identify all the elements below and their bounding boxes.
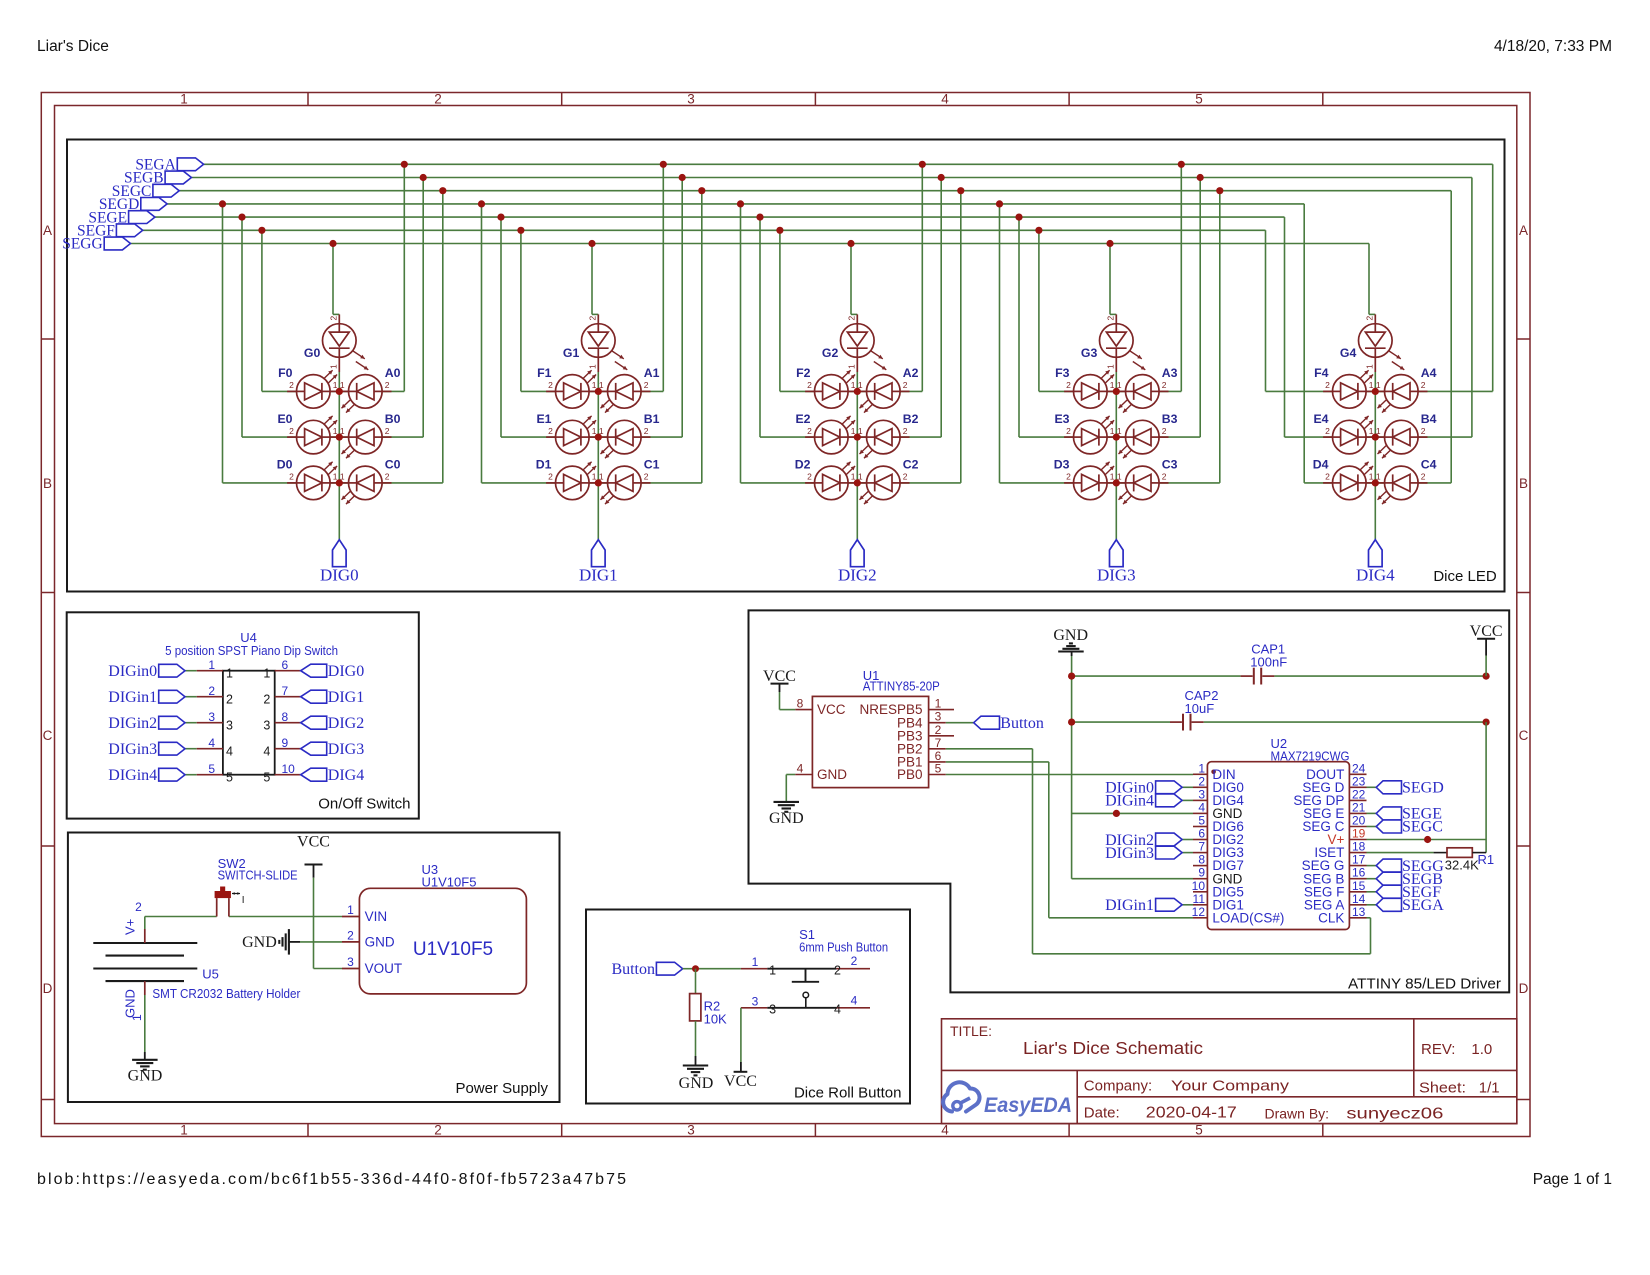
svg-text:1: 1 — [1110, 472, 1115, 482]
svg-text:1: 1 — [1369, 380, 1374, 390]
svg-text:5: 5 — [208, 762, 215, 776]
svg-text:2: 2 — [226, 693, 233, 707]
svg-text:1: 1 — [1117, 472, 1122, 482]
svg-text:GND: GND — [1053, 627, 1088, 644]
svg-text:2: 2 — [587, 316, 597, 321]
svg-text:4: 4 — [263, 745, 270, 759]
svg-text:1: 1 — [130, 1014, 144, 1021]
svg-text:2: 2 — [1421, 380, 1426, 390]
svg-text:1/1: 1/1 — [1479, 1080, 1500, 1097]
svg-text:Button: Button — [1000, 715, 1044, 732]
svg-text:2: 2 — [644, 472, 649, 482]
svg-text:1: 1 — [1376, 380, 1381, 390]
svg-text:DIG4: DIG4 — [328, 767, 364, 784]
svg-text:21: 21 — [1352, 800, 1366, 814]
svg-text:1: 1 — [599, 426, 604, 436]
svg-text:E0: E0 — [277, 412, 292, 426]
svg-text:10K: 10K — [704, 1012, 727, 1027]
svg-text:ATTINY85-20P: ATTINY85-20P — [863, 679, 940, 694]
svg-text:I: I — [242, 895, 245, 906]
svg-text:3: 3 — [687, 92, 695, 107]
svg-text:4: 4 — [1198, 800, 1205, 814]
svg-text:V+: V+ — [123, 919, 138, 935]
svg-text:VCC: VCC — [763, 668, 796, 685]
svg-text:5: 5 — [935, 762, 942, 776]
svg-text:1: 1 — [1105, 364, 1115, 369]
svg-text:2: 2 — [289, 472, 294, 482]
svg-text:GND: GND — [679, 1075, 714, 1092]
svg-text:1: 1 — [592, 472, 597, 482]
svg-text:1: 1 — [599, 472, 604, 482]
svg-text:2: 2 — [903, 380, 908, 390]
svg-text:A4: A4 — [1421, 366, 1437, 380]
svg-text:1: 1 — [333, 426, 338, 436]
svg-text:F4: F4 — [1314, 366, 1329, 380]
svg-text:1: 1 — [851, 426, 856, 436]
svg-text:Your Company: Your Company — [1171, 1078, 1290, 1095]
svg-text:1: 1 — [333, 380, 338, 390]
svg-text:1: 1 — [340, 472, 345, 482]
svg-text:F0: F0 — [278, 366, 293, 380]
svg-text:B4: B4 — [1421, 412, 1437, 426]
svg-text:1: 1 — [180, 1123, 188, 1138]
svg-text:C3: C3 — [1162, 458, 1178, 472]
svg-text:2: 2 — [935, 723, 942, 737]
svg-text:A0: A0 — [385, 366, 401, 380]
svg-text:EasyEDA: EasyEDA — [984, 1093, 1072, 1117]
svg-text:1: 1 — [1198, 761, 1205, 775]
svg-text:DIG1: DIG1 — [579, 566, 618, 585]
svg-text:SWITCH-SLIDE: SWITCH-SLIDE — [218, 868, 298, 883]
svg-text:G2: G2 — [822, 346, 839, 360]
svg-text:Company:: Company: — [1084, 1078, 1152, 1095]
svg-text:E2: E2 — [795, 412, 810, 426]
svg-text:4: 4 — [941, 92, 949, 107]
svg-text:3: 3 — [935, 710, 942, 724]
svg-text:10uF: 10uF — [1185, 701, 1215, 716]
svg-text:2: 2 — [385, 472, 390, 482]
svg-text:F1: F1 — [537, 366, 552, 380]
svg-text:2: 2 — [328, 316, 338, 321]
svg-text:4/18/20, 7:33 PM: 4/18/20, 7:33 PM — [1494, 38, 1612, 55]
svg-text:8: 8 — [797, 697, 804, 711]
svg-text:1: 1 — [851, 380, 856, 390]
svg-text:2: 2 — [347, 928, 354, 942]
svg-text:2: 2 — [644, 426, 649, 436]
svg-text:C: C — [1519, 728, 1529, 743]
svg-text:2: 2 — [385, 426, 390, 436]
svg-text:2: 2 — [434, 92, 442, 107]
svg-text:11: 11 — [1193, 892, 1206, 906]
svg-text:PB0: PB0 — [897, 767, 923, 782]
svg-text:SEGC: SEGC — [1402, 819, 1443, 836]
svg-text:2: 2 — [263, 693, 270, 707]
svg-text:DIG2: DIG2 — [328, 715, 364, 732]
svg-text:1: 1 — [1117, 380, 1122, 390]
svg-text:2: 2 — [846, 316, 856, 321]
svg-text:A: A — [1519, 223, 1528, 238]
svg-text:2: 2 — [1162, 426, 1167, 436]
svg-text:R1: R1 — [1478, 852, 1495, 867]
svg-text:DIG1: DIG1 — [328, 689, 364, 706]
svg-text:5: 5 — [1195, 1123, 1203, 1138]
svg-text:2: 2 — [1325, 380, 1330, 390]
svg-text:2: 2 — [903, 472, 908, 482]
svg-text:17: 17 — [1352, 853, 1366, 867]
svg-text:1: 1 — [1110, 426, 1115, 436]
svg-text:TITLE:: TITLE: — [950, 1023, 992, 1039]
svg-text:U1V10F5: U1V10F5 — [422, 875, 477, 890]
svg-text:2: 2 — [548, 380, 553, 390]
svg-text:2: 2 — [1066, 426, 1071, 436]
svg-text:1: 1 — [263, 667, 270, 681]
svg-text:6: 6 — [1198, 827, 1205, 841]
svg-text:VOUT: VOUT — [365, 961, 403, 976]
svg-text:C1: C1 — [644, 458, 660, 472]
svg-text:1: 1 — [592, 426, 597, 436]
svg-text:13: 13 — [1352, 905, 1366, 919]
svg-text:5: 5 — [1195, 92, 1203, 107]
svg-text:DIGin2: DIGin2 — [108, 715, 157, 732]
svg-text:2: 2 — [385, 380, 390, 390]
svg-text:DIGin3: DIGin3 — [1105, 845, 1154, 862]
svg-text:GND: GND — [817, 767, 847, 782]
svg-text:DIGin4: DIGin4 — [1105, 793, 1154, 810]
svg-text:3: 3 — [769, 1003, 776, 1017]
svg-text:2: 2 — [548, 472, 553, 482]
svg-text:1: 1 — [1117, 426, 1122, 436]
svg-text:2: 2 — [1421, 472, 1426, 482]
svg-text:1: 1 — [340, 426, 345, 436]
svg-text:DIG0: DIG0 — [328, 663, 364, 680]
svg-text:GND: GND — [769, 810, 804, 827]
svg-text:2: 2 — [289, 380, 294, 390]
svg-text:DIG3: DIG3 — [328, 741, 364, 758]
svg-text:1: 1 — [858, 426, 863, 436]
svg-text:19: 19 — [1352, 827, 1366, 841]
svg-text:DIG3: DIG3 — [1097, 566, 1136, 585]
svg-text:D2: D2 — [795, 458, 811, 472]
svg-text:MAX7219CWG: MAX7219CWG — [1271, 749, 1350, 764]
svg-text:5 position SPST Piano Dip Swit: 5 position SPST Piano Dip Switch — [165, 643, 338, 658]
svg-text:GND: GND — [128, 1068, 163, 1085]
svg-text:ATTINY 85/LED Driver: ATTINY 85/LED Driver — [1348, 976, 1501, 993]
svg-text:2: 2 — [1105, 316, 1115, 321]
svg-text:SEGG: SEGG — [62, 236, 102, 253]
svg-text:1: 1 — [599, 380, 604, 390]
svg-text:SEGD: SEGD — [1402, 780, 1444, 797]
svg-text:A1: A1 — [644, 366, 660, 380]
svg-text:E3: E3 — [1054, 412, 1069, 426]
svg-text:2: 2 — [208, 684, 215, 698]
svg-text:1: 1 — [851, 472, 856, 482]
svg-text:D1: D1 — [536, 458, 552, 472]
svg-text:12: 12 — [1192, 905, 1206, 919]
svg-text:4: 4 — [226, 745, 233, 759]
svg-text:1: 1 — [858, 380, 863, 390]
svg-text:10: 10 — [1192, 879, 1206, 893]
svg-text:Date:: Date: — [1084, 1105, 1120, 1122]
svg-text:GND: GND — [365, 935, 395, 950]
svg-text:3: 3 — [347, 955, 354, 969]
svg-text:20: 20 — [1352, 814, 1366, 828]
svg-text:A: A — [43, 223, 52, 238]
svg-text:4: 4 — [941, 1123, 949, 1138]
svg-text:6mm Push Button: 6mm Push Button — [799, 940, 888, 955]
svg-text:32.4K: 32.4K — [1445, 858, 1479, 873]
svg-text:1: 1 — [935, 697, 942, 711]
svg-text:1: 1 — [340, 380, 345, 390]
svg-text:5: 5 — [1198, 814, 1205, 828]
svg-text:100nF: 100nF — [1250, 655, 1287, 670]
svg-text:1: 1 — [1369, 472, 1374, 482]
svg-text:Power Supply: Power Supply — [455, 1080, 548, 1097]
svg-text:VCC: VCC — [724, 1073, 757, 1090]
svg-text:23: 23 — [1352, 774, 1366, 788]
svg-text:Sheet:: Sheet: — [1419, 1080, 1466, 1097]
svg-text:B: B — [1519, 476, 1528, 491]
svg-text:1: 1 — [208, 658, 215, 672]
svg-text:Button: Button — [611, 961, 655, 978]
svg-text:4: 4 — [851, 993, 858, 1007]
svg-text:1: 1 — [587, 364, 597, 369]
svg-text:1: 1 — [226, 667, 233, 681]
svg-text:2: 2 — [834, 964, 841, 978]
svg-text:sunyecz06: sunyecz06 — [1346, 1106, 1443, 1123]
svg-text:1: 1 — [333, 472, 338, 482]
svg-text:G3: G3 — [1081, 346, 1098, 360]
svg-text:2: 2 — [807, 380, 812, 390]
svg-text:1.0: 1.0 — [1471, 1041, 1492, 1058]
svg-text:DIG0: DIG0 — [320, 566, 359, 585]
svg-text:2: 2 — [851, 954, 858, 968]
svg-text:1: 1 — [328, 364, 338, 369]
svg-text:Dice Roll Button: Dice Roll Button — [794, 1085, 902, 1102]
svg-text:D: D — [43, 981, 53, 996]
svg-text:B2: B2 — [903, 412, 919, 426]
svg-text:Dice LED: Dice LED — [1433, 568, 1497, 585]
svg-text:1: 1 — [1110, 380, 1115, 390]
svg-text:2: 2 — [903, 426, 908, 436]
svg-text:G4: G4 — [1340, 346, 1357, 360]
svg-text:2: 2 — [548, 426, 553, 436]
svg-text:2: 2 — [1162, 380, 1167, 390]
svg-text:3: 3 — [752, 994, 759, 1008]
svg-text:2: 2 — [807, 426, 812, 436]
svg-text:G1: G1 — [563, 346, 580, 360]
svg-text:GND: GND — [242, 934, 277, 951]
svg-text:1: 1 — [180, 92, 188, 107]
svg-text:8: 8 — [282, 710, 289, 724]
svg-text:DIGin3: DIGin3 — [108, 741, 157, 758]
svg-text:1: 1 — [846, 364, 856, 369]
svg-text:3: 3 — [208, 710, 215, 724]
svg-text:8: 8 — [1198, 853, 1205, 867]
svg-text:9: 9 — [282, 736, 289, 750]
svg-text:E1: E1 — [536, 412, 551, 426]
svg-text:SMT CR2032 Battery Holder: SMT CR2032 Battery Holder — [152, 986, 301, 1001]
svg-text:3: 3 — [687, 1123, 695, 1138]
svg-text:1: 1 — [592, 380, 597, 390]
svg-text:DIG2: DIG2 — [838, 566, 877, 585]
svg-text:2: 2 — [644, 380, 649, 390]
svg-text:2: 2 — [1066, 380, 1071, 390]
svg-text:B1: B1 — [644, 412, 660, 426]
svg-text:2: 2 — [807, 472, 812, 482]
svg-text:LOAD(CS#): LOAD(CS#) — [1212, 910, 1284, 925]
svg-text:2: 2 — [434, 1123, 442, 1138]
svg-text:3: 3 — [226, 719, 233, 733]
svg-text:DIGin4: DIGin4 — [108, 767, 157, 784]
svg-text:1: 1 — [858, 472, 863, 482]
svg-text:D4: D4 — [1313, 458, 1329, 472]
svg-text:B0: B0 — [385, 412, 401, 426]
svg-text:1: 1 — [1364, 364, 1374, 369]
svg-text:2: 2 — [1162, 472, 1167, 482]
svg-text:U5: U5 — [202, 967, 219, 982]
svg-text:2: 2 — [1325, 426, 1330, 436]
svg-text:22: 22 — [1352, 787, 1366, 801]
svg-text:GND: GND — [123, 989, 138, 1018]
svg-text:VCC: VCC — [1470, 623, 1503, 640]
svg-text:7: 7 — [1198, 840, 1205, 854]
svg-text:18: 18 — [1352, 840, 1366, 854]
svg-text:10: 10 — [282, 762, 296, 776]
svg-text:4: 4 — [834, 1003, 841, 1017]
svg-text:C: C — [43, 728, 53, 743]
svg-text:5: 5 — [263, 771, 270, 785]
svg-text:DIGin0: DIGin0 — [108, 663, 157, 680]
svg-text:4: 4 — [797, 762, 804, 776]
svg-text:Liar's Dice Schematic: Liar's Dice Schematic — [1023, 1038, 1203, 1058]
svg-text:G0: G0 — [304, 346, 321, 360]
svg-text:On/Off Switch: On/Off Switch — [318, 796, 410, 813]
svg-text:2: 2 — [135, 900, 142, 914]
svg-text:U1V10F5: U1V10F5 — [413, 939, 493, 960]
svg-text:C2: C2 — [903, 458, 919, 472]
svg-text:C0: C0 — [385, 458, 401, 472]
svg-text:2: 2 — [1325, 472, 1330, 482]
svg-text:2: 2 — [1198, 774, 1205, 788]
svg-text:1: 1 — [1369, 426, 1374, 436]
svg-text:7: 7 — [935, 736, 942, 750]
svg-text:4: 4 — [208, 736, 215, 750]
svg-text:2: 2 — [289, 426, 294, 436]
svg-text:D0: D0 — [277, 458, 293, 472]
svg-text:B: B — [43, 476, 52, 491]
svg-text:A2: A2 — [903, 366, 919, 380]
svg-text:1: 1 — [752, 955, 759, 969]
svg-text:14: 14 — [1352, 892, 1366, 906]
svg-text:2: 2 — [1421, 426, 1426, 436]
svg-text:REV:: REV: — [1421, 1041, 1455, 1058]
svg-text:F3: F3 — [1055, 366, 1070, 380]
svg-text:SEGA: SEGA — [1402, 897, 1444, 914]
svg-text:C4: C4 — [1421, 458, 1437, 472]
svg-text:1: 1 — [769, 964, 776, 978]
svg-text:DIG4: DIG4 — [1356, 566, 1395, 585]
svg-text:F2: F2 — [796, 366, 811, 380]
svg-text:16: 16 — [1352, 866, 1366, 880]
svg-text:24: 24 — [1352, 761, 1366, 775]
svg-text:Liar's Dice: Liar's Dice — [37, 38, 109, 55]
svg-text:DIGin1: DIGin1 — [1105, 897, 1154, 914]
svg-text:7: 7 — [282, 684, 289, 698]
svg-text:D: D — [1519, 981, 1529, 996]
svg-text:2: 2 — [1066, 472, 1071, 482]
svg-text:1: 1 — [1376, 472, 1381, 482]
svg-text:9: 9 — [1198, 866, 1205, 880]
svg-text:15: 15 — [1352, 879, 1366, 893]
svg-text:2: 2 — [1364, 316, 1374, 321]
svg-text:A3: A3 — [1162, 366, 1178, 380]
svg-text:Drawn By:: Drawn By: — [1265, 1106, 1330, 1122]
svg-text:VIN: VIN — [365, 909, 388, 924]
svg-text:E4: E4 — [1313, 412, 1328, 426]
svg-text:VCC: VCC — [297, 834, 330, 851]
svg-text:D3: D3 — [1054, 458, 1070, 472]
svg-text:Page 1 of 1: Page 1 of 1 — [1533, 1171, 1612, 1188]
svg-text:6: 6 — [282, 658, 289, 672]
svg-text:3: 3 — [263, 719, 270, 733]
svg-text:5: 5 — [226, 771, 233, 785]
svg-text:2020-04-17: 2020-04-17 — [1146, 1105, 1237, 1122]
svg-text:3: 3 — [1198, 787, 1205, 801]
svg-text:B3: B3 — [1162, 412, 1178, 426]
svg-text:1: 1 — [1376, 426, 1381, 436]
svg-text:VCC: VCC — [817, 702, 846, 717]
svg-text:DIGin1: DIGin1 — [108, 689, 157, 706]
svg-text:CLK: CLK — [1318, 910, 1344, 925]
svg-text:1: 1 — [347, 903, 354, 917]
